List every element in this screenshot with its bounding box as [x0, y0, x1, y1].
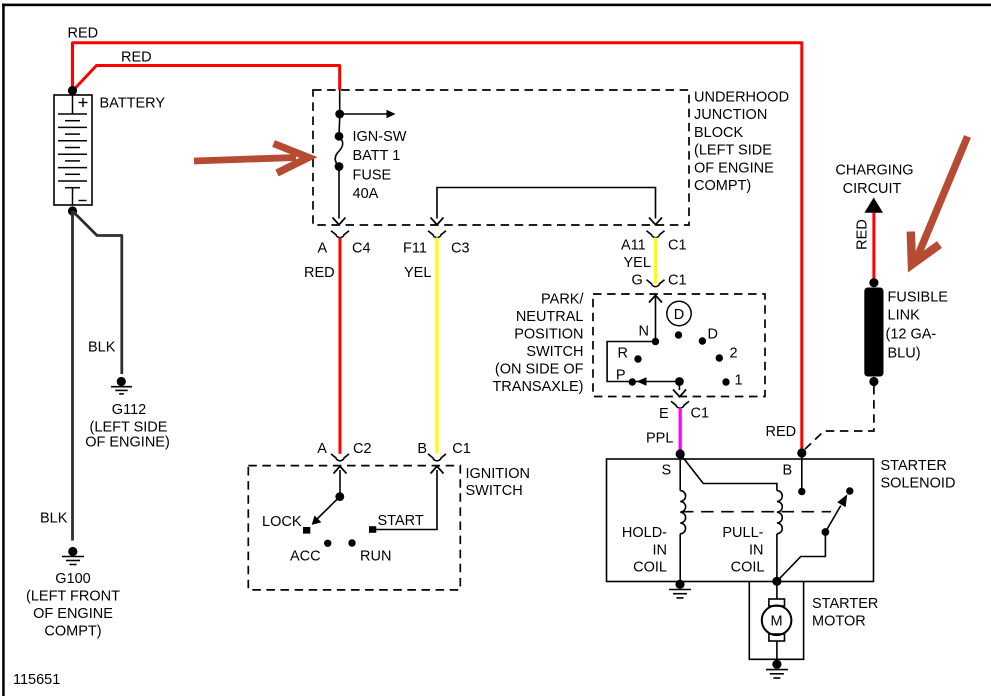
wire branch arrow right: [340, 113, 388, 115]
ground G100: [68, 547, 77, 556]
wire hold-in coil to ground: [679, 534, 681, 582]
node battery - terminal: [68, 206, 77, 215]
connector A C2: [331, 454, 349, 461]
node RUN: [348, 539, 355, 546]
wire fuse to A C4 exit: [338, 167, 340, 219]
svg-text:IN: IN: [749, 543, 764, 559]
svg-text:C2: C2: [353, 441, 372, 457]
svg-text:BLOCK: BLOCK: [694, 125, 743, 141]
battery + sign: [79, 98, 88, 107]
svg-text:RED: RED: [766, 424, 797, 440]
connector B C1: [428, 454, 446, 461]
svg-text:LINK: LINK: [888, 308, 921, 324]
wire RED from battery + to junction block fuse: [73, 66, 340, 92]
svg-text:C3: C3: [451, 241, 470, 257]
svg-text:115651: 115651: [13, 672, 60, 688]
svg-text:C1: C1: [668, 273, 687, 289]
svg-text:2: 2: [730, 346, 738, 362]
svg-text:IN: IN: [653, 543, 668, 559]
wire ignition A arrow up: [339, 470, 341, 496]
svg-text:(LEFT FRONT: (LEFT FRONT: [26, 589, 120, 605]
svg-text:F11: F11: [403, 241, 427, 257]
ignition wiper arm to LOCK: [315, 497, 340, 522]
svg-text:RED: RED: [304, 265, 335, 281]
node E junction: [675, 377, 684, 386]
svg-text:YEL: YEL: [624, 255, 651, 271]
svg-text:G112: G112: [112, 402, 146, 418]
svg-text:HOLD-: HOLD-: [622, 525, 667, 541]
wire S to hold-in coil: [679, 454, 681, 491]
svg-text:UNDERHOOD: UNDERHOOD: [694, 90, 789, 106]
svg-text:C1: C1: [691, 406, 710, 422]
node D: [699, 337, 706, 344]
svg-text:OF ENGINE: OF ENGINE: [33, 606, 113, 622]
wire RED from battery + to starter solenoid B: [73, 43, 802, 453]
svg-text:BATT 1: BATT 1: [353, 148, 401, 164]
node fusible link bottom: [869, 377, 878, 386]
arrow to charging circuit: [864, 198, 883, 213]
node P: [629, 378, 636, 385]
wire S to pull-in coil: [680, 454, 777, 491]
node battery + terminal: [68, 86, 77, 95]
terminal LOCK: [303, 527, 310, 534]
ground G112: [117, 377, 126, 386]
svg-text:YEL: YEL: [404, 265, 431, 281]
wire E exit arrow: [678, 382, 680, 391]
svg-text:S: S: [662, 463, 672, 479]
wire (dashed) fusible link to solenoid B: [803, 386, 874, 451]
svg-text:CIRCUIT: CIRCUIT: [843, 181, 902, 197]
svg-text:(12 GA-: (12 GA-: [886, 327, 937, 343]
svg-text:(LEFT SIDE: (LEFT SIDE: [90, 420, 168, 436]
svg-text:1: 1: [735, 373, 743, 389]
svg-text:FUSIBLE: FUSIBLE: [888, 290, 949, 306]
node B terminal: [797, 448, 806, 457]
svg-text:PULL-: PULL-: [722, 525, 763, 541]
node fuse top junction: [335, 110, 344, 119]
battery plates: [58, 95, 87, 205]
wire BLK battery - to G100: [71, 211, 74, 541]
svg-text:PPL: PPL: [646, 431, 673, 447]
connector F11 C3: [428, 231, 446, 238]
svg-text:C1: C1: [668, 238, 687, 254]
wire N bracket to P and wiper to E: [607, 342, 679, 382]
wire YEL A11 C1 to park/neutral switch G C1: [654, 238, 657, 285]
svg-text:A: A: [318, 241, 328, 257]
svg-text:C4: C4: [352, 241, 371, 257]
selector position D (circled): [667, 301, 691, 325]
node fusible link top: [869, 278, 878, 287]
svg-text:OF ENGINE: OF ENGINE: [694, 160, 774, 176]
svg-text:A11: A11: [621, 238, 646, 254]
motor brush bottom: [769, 634, 785, 641]
svg-text:JUNCTION: JUNCTION: [694, 107, 767, 123]
wire START to B arrow up: [376, 470, 437, 530]
starter solenoid box: [607, 459, 874, 582]
svg-text:SWITCH: SWITCH: [466, 483, 523, 499]
connector A11 C1: [647, 231, 665, 238]
wire RED fusible link to charging circuit: [872, 213, 875, 283]
svg-text:START: START: [378, 513, 424, 529]
node ignition wiper pivot: [335, 492, 344, 501]
hold-in coil: [680, 491, 685, 534]
svg-text:D: D: [708, 327, 718, 343]
svg-text:B: B: [783, 463, 793, 479]
svg-text:FUSE: FUSE: [353, 167, 392, 183]
pull-in coil: [777, 491, 782, 534]
svg-text:RUN: RUN: [360, 549, 391, 565]
wire BLK battery - to G112: [73, 211, 122, 374]
svg-text:C1: C1: [452, 441, 471, 457]
annotation arrow (points at fusible link): [911, 137, 968, 265]
fuse IGN-SW BATT 1 40A: [335, 132, 344, 141]
node ACC: [324, 540, 331, 547]
svg-text:A: A: [317, 441, 327, 457]
svg-text:N: N: [639, 324, 649, 340]
wire N to G exit arrow: [655, 296, 657, 342]
annotation arrow (points at fuse): [194, 144, 309, 174]
svg-text:SWITCH: SWITCH: [526, 344, 583, 360]
svg-text:40A: 40A: [353, 186, 379, 202]
svg-text:M: M: [771, 614, 783, 630]
svg-text:BLK: BLK: [88, 340, 116, 356]
connector E C1: [671, 401, 689, 408]
svg-text:B: B: [417, 441, 427, 457]
node R: [634, 355, 641, 362]
solenoid moving contact arm: [777, 535, 826, 581]
node 1: [722, 378, 729, 385]
svg-text:R: R: [618, 346, 628, 362]
fusible link (12 GA-BLU): [864, 288, 883, 377]
svg-text:TRANSAXLE): TRANSAXLE): [492, 379, 583, 395]
node below D: [675, 331, 682, 338]
page border top: [2, 4, 991, 7]
svg-text:D: D: [674, 307, 684, 323]
ignition switch (dashed box): [248, 466, 460, 590]
wire YEL F11 C3 to ignition switch B C1: [435, 238, 438, 454]
svg-text:SOLENOID: SOLENOID: [881, 476, 956, 492]
svg-text:MOTOR: MOTOR: [812, 614, 866, 630]
ground (hold-in coil): [675, 580, 684, 589]
svg-text:IGN-SW: IGN-SW: [353, 129, 407, 145]
svg-text:STARTER: STARTER: [881, 458, 947, 474]
svg-text:E: E: [659, 406, 669, 422]
wire RED A C4 to ignition switch A C2: [339, 238, 342, 454]
terminal START: [369, 526, 376, 533]
wire pull-in coil to motor junction: [776, 534, 778, 582]
node S terminal: [676, 449, 685, 458]
wire fuse feed: [339, 90, 341, 114]
wire PPL E C1 to solenoid S: [679, 408, 682, 454]
park/neutral position switch (dashed box): [593, 294, 765, 397]
svg-text:(ON SIDE OF: (ON SIDE OF: [495, 362, 584, 378]
svg-text:RED: RED: [855, 219, 871, 250]
node contact (B side): [798, 488, 805, 495]
wire to brush: [776, 581, 778, 599]
motor M armature: [762, 606, 792, 636]
svg-text:IGNITION: IGNITION: [466, 466, 530, 482]
node N: [652, 338, 659, 345]
battery B1 box: [54, 95, 92, 205]
svg-text:BLK: BLK: [40, 511, 68, 527]
svg-text:COMPT): COMPT): [694, 178, 751, 194]
mechanical link (dashed): [681, 511, 831, 513]
svg-text:BLU): BLU): [888, 346, 921, 362]
svg-text:G: G: [632, 273, 643, 289]
wire brush to case: [776, 641, 778, 659]
page border left: [2, 4, 4, 696]
svg-text:COIL: COIL: [633, 560, 667, 576]
svg-text:POSITION: POSITION: [514, 327, 583, 343]
svg-text:LOCK: LOCK: [262, 514, 302, 530]
svg-text:CHARGING: CHARGING: [835, 163, 913, 179]
node contact (motor side): [846, 487, 853, 494]
svg-text:ACC: ACC: [290, 549, 321, 565]
svg-text:NEUTRAL: NEUTRAL: [516, 309, 584, 325]
svg-text:COIL: COIL: [731, 560, 765, 576]
ground (starter motor): [772, 660, 781, 669]
svg-text:RED: RED: [121, 50, 152, 66]
svg-text:COMPT): COMPT): [44, 624, 101, 640]
svg-text:RED: RED: [68, 26, 99, 42]
svg-text:G100: G100: [55, 571, 90, 587]
wire F11 to A11 link: [437, 188, 656, 219]
svg-text:PARK/: PARK/: [541, 292, 584, 308]
motor brush top: [769, 599, 785, 606]
wire B to contact: [801, 453, 803, 488]
node 2: [716, 354, 723, 361]
connector G C1: [647, 280, 665, 287]
svg-text:OF ENGINE): OF ENGINE): [85, 435, 170, 451]
svg-text:BATTERY: BATTERY: [100, 96, 166, 112]
svg-text:STARTER: STARTER: [812, 596, 878, 612]
connector A C4: [331, 231, 349, 238]
battery - sign: [79, 200, 87, 202]
svg-text:(LEFT SIDE: (LEFT SIDE: [694, 143, 772, 159]
underhood junction block (dashed box): [313, 90, 689, 225]
node motor junction: [772, 577, 781, 586]
starter motor box: [749, 582, 803, 660]
